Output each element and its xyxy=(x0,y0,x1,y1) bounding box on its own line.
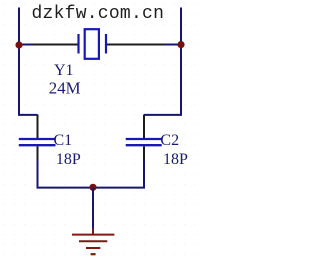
wire: left jog down to C1 (horizontal) xyxy=(19,114,38,116)
svg-text:C1: C1 xyxy=(54,132,73,149)
wire: right jog down to C2 (horizontal) xyxy=(144,114,181,116)
wire: bottom horizontal rail xyxy=(37,187,146,189)
capacitor C1 top pin (black) xyxy=(37,115,39,139)
svg-text:dzkfw.com.cn: dzkfw.com.cn xyxy=(32,4,165,24)
svg-text:18P: 18P xyxy=(56,151,81,168)
wire: ground stem (navy upper part) xyxy=(92,188,94,230)
wire: right vertical net segment xyxy=(180,8,182,116)
capacitor C2 top pin (black) xyxy=(143,115,145,139)
junction dot: bottom center node xyxy=(89,184,96,191)
wire: short navy segment from left junction to crystal pin 1 xyxy=(18,44,34,46)
ground symbol bar 1 xyxy=(72,234,114,236)
crystal Y1 pin 2 (right, black) xyxy=(106,44,165,46)
crystal Y1 left electrode plate xyxy=(77,34,79,54)
wire: short navy segment from crystal pin 2 to right junction xyxy=(164,44,182,46)
svg-text:C2: C2 xyxy=(160,132,179,149)
crystal Y1 pin 1 (left, black) xyxy=(33,44,78,46)
ground symbol bar 2 xyxy=(79,240,107,242)
wire: left vertical net segment xyxy=(18,8,20,116)
wire: C1 bottom pin to bottom rail xyxy=(37,160,39,189)
junction dot: left node xyxy=(15,41,22,48)
crystal Y1 body rectangle xyxy=(85,29,99,59)
capacitor C1 bottom pin (black) xyxy=(37,146,39,161)
wire: C2 bottom pin to bottom rail xyxy=(143,160,145,189)
capacitor C1 top plate xyxy=(19,138,56,140)
svg-text:24M: 24M xyxy=(49,79,81,98)
ground symbol bar 4 xyxy=(91,253,96,255)
crystal Y1 right electrode plate xyxy=(105,34,107,54)
svg-text:Y1: Y1 xyxy=(54,62,74,79)
svg-text:18P: 18P xyxy=(163,151,188,168)
ground symbol stem (maroon lower part) xyxy=(92,229,94,235)
capacitor C2 bottom plate xyxy=(126,144,162,146)
capacitor C2 bottom pin (black) xyxy=(143,146,145,161)
ground symbol bar 3 xyxy=(86,247,100,249)
capacitor C2 top plate xyxy=(126,138,162,140)
junction dot: right node xyxy=(177,41,184,48)
capacitor C1 bottom plate xyxy=(19,144,56,146)
